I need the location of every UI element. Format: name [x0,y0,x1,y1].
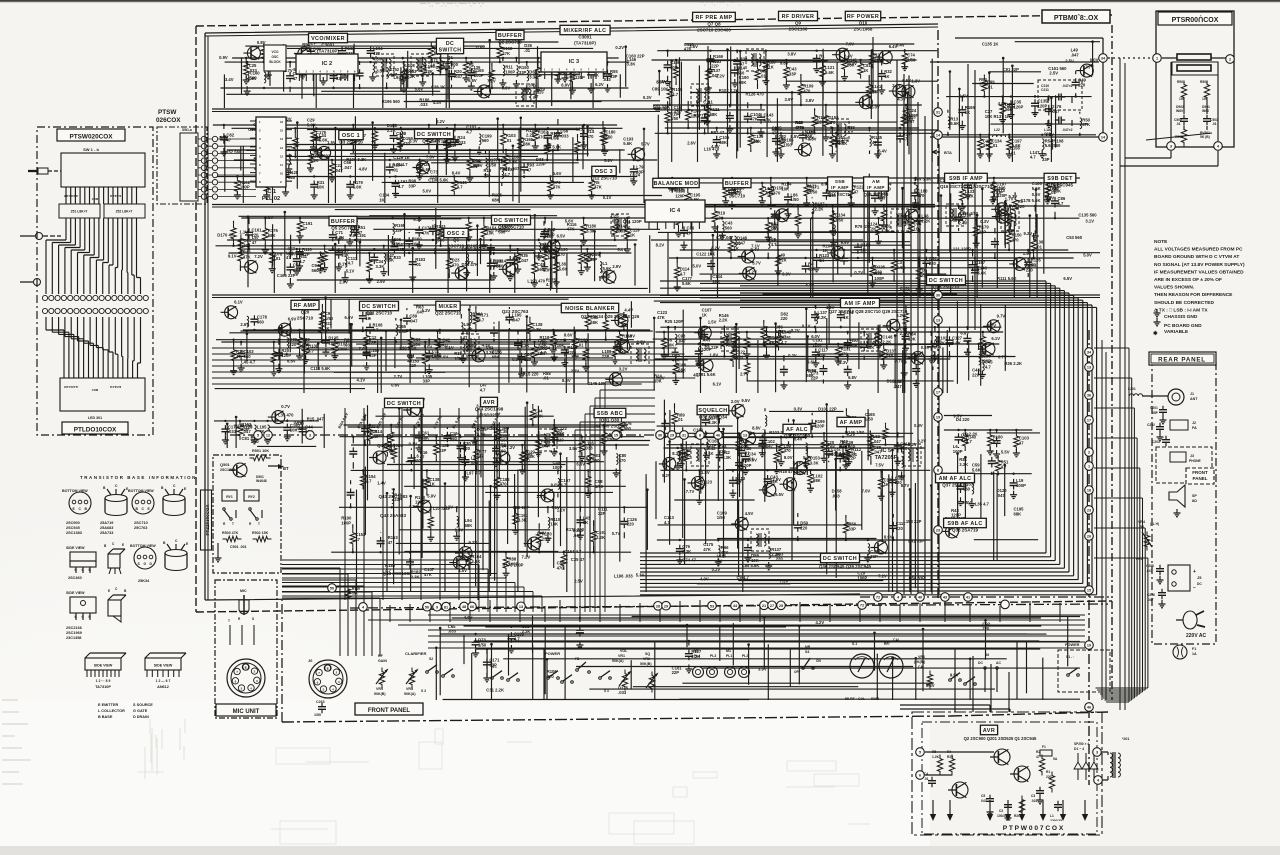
svg-text:12: 12 [266,434,270,438]
svg-text:R196 560: R196 560 [382,99,401,104]
svg-text:OSC: OSC [272,55,280,59]
svg-text:46: 46 [716,434,720,438]
svg-text:560: 560 [771,227,779,232]
svg-text:220: 220 [547,674,555,679]
svg-text:1/50: 1/50 [784,142,793,147]
svg-text:33P: 33P [789,71,797,76]
svg-text:R87 47: R87 47 [711,130,725,135]
svg-text:46: 46 [1087,706,1091,710]
svg-text:220: 220 [289,342,297,347]
svg-text:560: 560 [288,175,296,180]
svg-text:5.0V: 5.0V [693,263,702,268]
svg-text:22P: 22P [397,247,405,252]
svg-text:5.0V: 5.0V [423,189,432,194]
svg-text:560: 560 [257,319,265,324]
svg-text:0.9V: 0.9V [219,55,228,60]
svg-text:.033: .033 [560,133,569,138]
svg-text:L41 33P: L41 33P [908,539,924,544]
svg-text:47K: 47K [657,315,665,320]
svg-text:22P: 22P [372,434,380,439]
svg-text:100P: 100P [953,449,963,454]
svg-text:47K: 47K [674,110,682,115]
svg-text:F1: F1 [1042,745,1046,749]
svg-text:1K: 1K [860,247,865,252]
svg-text:DC SWITCH: DC SWITCH [362,304,396,310]
svg-text:047: 047 [981,799,987,803]
svg-text:E EMITTER: E EMITTER [98,703,119,707]
svg-text:REAR PANEL: REAR PANEL [1158,357,1206,364]
svg-text:50: 50 [1140,525,1144,529]
svg-text:.01: .01 [543,376,549,381]
svg-text:C89 10K: C89 10K [652,87,669,92]
svg-text:3.3K: 3.3K [518,518,527,523]
svg-text:68K: 68K [492,355,500,360]
svg-text:.01: .01 [1010,151,1016,156]
svg-text:33P: 33P [395,228,403,233]
svg-text:9.5V: 9.5V [741,398,750,403]
svg-text:28: 28 [656,605,660,609]
svg-text:5.6K: 5.6K [353,185,362,190]
svg-text:Q19 2SC945: Q19 2SC945 [1047,183,1074,188]
svg-text:E: E [89,615,91,619]
svg-text:1.8V: 1.8V [701,470,710,475]
svg-text:470: 470 [784,448,792,453]
svg-text:C178 5.6K: C178 5.6K [1021,198,1041,203]
svg-text:2.5V: 2.5V [1065,59,1074,64]
svg-text:0.7V: 0.7V [281,404,290,409]
svg-text:8.0V: 8.0V [784,455,793,460]
svg-text:6.5V: 6.5V [265,215,274,220]
svg-text:5.6K: 5.6K [952,340,961,345]
svg-text:D24 47K: D24 47K [462,262,479,267]
svg-text:POWER: POWER [1065,643,1080,647]
svg-text:1K: 1K [863,68,868,73]
svg-text:Q4 2SC710: Q4 2SC710 [422,139,446,144]
svg-text:7.0V: 7.0V [440,354,449,359]
svg-text:2.2V: 2.2V [506,445,515,450]
svg-text:7.2V: 7.2V [522,555,531,560]
svg-text:.047×2: .047×2 [1062,84,1073,88]
svg-text:L COLLECTOR: L COLLECTOR [98,709,125,713]
svg-text:8: 8 [699,434,701,438]
svg-text:SW 1 - b: SW 1 - b [83,147,99,152]
svg-text:0.0V: 0.0V [512,357,521,362]
svg-text:25A733: 25A733 [100,531,113,535]
svg-text:PTBM0ˆ8:.OX: PTBM0ˆ8:.OX [1054,14,1099,22]
svg-text:6.6V: 6.6V [345,315,354,320]
svg-text:5.7V: 5.7V [987,323,996,328]
svg-text:5: 5 [919,751,921,755]
svg-text:SWITCH: SWITCH [439,48,462,54]
svg-text:.047: .047 [1146,569,1153,573]
svg-text:R25 120P: R25 120P [665,319,684,324]
svg-text:10K: 10K [550,522,558,527]
svg-text:33P: 33P [590,257,598,262]
svg-text:10K: 10K [985,114,993,119]
svg-text:3.1V: 3.1V [793,460,802,465]
svg-text:AM AF ALC: AM AF ALC [939,476,972,482]
svg-text:470: 470 [373,51,381,56]
svg-text:3.3K: 3.3K [471,559,480,564]
svg-text:10K: 10K [781,186,789,191]
svg-text:Q20: Q20 [301,310,310,315]
svg-text:4.8V: 4.8V [373,57,382,62]
svg-text:1A: 1A [1192,652,1197,656]
svg-text:VR1: VR1 [618,654,625,658]
svg-text:.047: .047 [344,165,353,170]
svg-text:7.0V: 7.0V [846,42,855,47]
svg-text:NO SIGNAL (AT 13.8V POWER SUPP: NO SIGNAL (AT 13.8V POWER SUPPLY) [1154,262,1245,268]
svg-text:.047: .047 [796,125,805,130]
svg-text:33P: 33P [768,341,776,346]
svg-text:2SC945 2SD325: 2SC945 2SD325 [593,424,627,429]
svg-text:22P: 22P [672,670,680,675]
svg-text:C160 22P: C160 22P [626,54,645,59]
svg-text:Δ TX : □ LSB : I-I AM TX: Δ TX : □ LSB : I-I AM TX [1154,307,1208,313]
svg-text:120P: 120P [1014,104,1024,109]
svg-text:47: 47 [1036,755,1040,759]
svg-text:6.6V: 6.6V [468,78,477,83]
svg-text:4.7: 4.7 [546,282,552,287]
svg-text:.033: .033 [603,77,612,82]
svg-text:72: 72 [860,604,864,608]
svg-text:AF ALC: AF ALC [786,427,808,433]
svg-text:33P: 33P [369,353,377,358]
svg-text:0.0V: 0.0V [502,85,511,90]
svg-text:C3001: C3001 [578,35,592,40]
svg-text:4.7: 4.7 [398,184,404,189]
svg-text:6.4V: 6.4V [796,468,805,473]
svg-text:120P: 120P [368,429,378,434]
svg-text:3.3K: 3.3K [627,62,636,67]
svg-text:RF: RF [378,654,384,658]
svg-text:C129 1K: C129 1K [393,155,410,160]
svg-text:D101 22P: D101 22P [818,406,837,411]
svg-text:220: 220 [817,120,825,125]
svg-text:7.2V: 7.2V [254,254,263,259]
svg-text:25A683: 25A683 [100,526,113,530]
svg-text:4.3V: 4.3V [869,89,878,94]
svg-text:220: 220 [982,626,990,631]
svg-text:560: 560 [1005,107,1013,112]
svg-text:C9 4.7: C9 4.7 [737,575,750,580]
svg-text:.01: .01 [506,138,512,143]
svg-text:R169: R169 [352,587,360,591]
svg-text:0.2V: 0.2V [917,439,926,444]
svg-text:0.0V: 0.0V [1090,58,1099,63]
svg-text:470: 470 [917,193,925,198]
svg-text:S1 - ·: S1 - · [1066,655,1074,659]
svg-text:5: 5 [257,434,259,438]
svg-text:3.5V: 3.5V [376,69,385,74]
svg-text:470: 470 [818,352,826,357]
svg-text:470: 470 [538,134,546,139]
svg-text:.033: .033 [228,429,237,434]
svg-text:1.2V: 1.2V [748,269,757,274]
svg-text:3.3K: 3.3K [722,455,731,460]
svg-text:33P: 33P [1042,157,1050,162]
svg-text:G: G [144,562,147,566]
svg-text:Q44 2SC1398: Q44 2SC1398 [475,407,504,412]
svg-text:10K: 10K [654,378,662,383]
svg-text:2SC710 2SC460: 2SC710 2SC460 [697,28,731,33]
svg-text:R20: R20 [947,755,953,759]
svg-text:50: 50 [330,587,334,591]
svg-text:R36 2.2K: R36 2.2K [1004,361,1022,366]
svg-text:4.2V: 4.2V [816,620,825,625]
svg-text:R35 560: R35 560 [654,106,671,111]
svg-text:IN4648: IN4648 [256,479,267,483]
svg-text:68K: 68K [1014,512,1022,517]
svg-text:120P: 120P [813,342,823,347]
svg-text:3.9V: 3.9V [785,97,794,102]
svg-text:47: 47 [420,455,425,460]
svg-text:22P: 22P [979,230,987,235]
svg-text:7.3V: 7.3V [780,579,789,584]
svg-text:470: 470 [1012,237,1020,242]
svg-text:C145 10K: C145 10K [587,381,606,386]
svg-text:1K: 1K [702,312,707,317]
svg-text:R111 5.6K: R111 5.6K [997,276,1017,281]
svg-text:ON: ON [816,659,821,663]
svg-text:5.6K: 5.6K [977,270,986,275]
svg-text:220: 220 [463,446,471,451]
svg-text:R15 .047: R15 .047 [307,417,325,422]
svg-text:33P: 33P [336,76,344,81]
svg-text:4.5V: 4.5V [458,568,467,573]
svg-text:2.2K: 2.2K [815,207,824,212]
svg-text:47K: 47K [424,572,432,577]
svg-text:47K: 47K [553,185,561,190]
svg-text:✱: ✱ [1153,330,1158,337]
svg-text:IF AMP: IF AMP [867,185,885,190]
svg-text:47: 47 [355,537,360,542]
svg-text:47: 47 [903,136,908,141]
svg-text:Q42 25A683: Q42 25A683 [380,513,406,518]
svg-text:.01: .01 [578,342,584,347]
svg-text:8.3V: 8.3V [914,353,923,358]
svg-text:COM: COM [92,388,99,392]
svg-text:(2K(B)): (2K(B)) [914,660,925,664]
svg-text:6.0V: 6.0V [626,334,635,339]
svg-text:2.2V: 2.2V [571,369,580,374]
svg-text:1.1V: 1.1V [239,230,248,235]
svg-text:LED 301: LED 301 [88,416,102,420]
svg-text:S9B IF AMP: S9B IF AMP [949,176,983,182]
svg-text:5.6K: 5.6K [838,141,847,146]
svg-text:IC 4: IC 4 [670,208,681,214]
svg-text:TA7310P: TA7310P [95,685,111,689]
svg-text:9.6V: 9.6V [807,360,816,365]
svg-text:220: 220 [972,372,980,377]
svg-text:C3001: C3001 [321,43,335,48]
svg-text:81: 81 [444,605,448,609]
svg-text:1K: 1K [356,238,361,243]
svg-text:S: S [252,617,254,621]
svg-text:3.3V: 3.3V [839,360,848,365]
svg-text:4.7: 4.7 [540,350,546,355]
svg-text:470: 470 [558,252,566,257]
svg-text:220: 220 [929,261,937,266]
svg-text:ARE IN EXCESS OF ± 20% OF: ARE IN EXCESS OF ± 20% OF [1154,277,1222,283]
svg-text:68K: 68K [288,252,296,257]
svg-text:68K: 68K [523,142,531,147]
svg-text:L94 68K: L94 68K [394,75,410,80]
svg-text:0.9V: 0.9V [618,247,627,252]
svg-text:7.7V: 7.7V [895,359,904,364]
svg-text:220: 220 [627,522,635,527]
svg-text:0.6V: 0.6V [383,445,392,450]
svg-text:13: 13 [1087,366,1091,370]
svg-text:RF/: RF/ [884,642,890,646]
svg-text:470: 470 [557,565,565,570]
svg-text:50K(B): 50K(B) [640,662,652,666]
svg-text:ˇ˘˝ ˆ·· ˇˆ ·˘·˝ˆˇ ˘·ˆˇ˘ˇ ˆ·ˇ˘: ˇ˘˝ ˆ·· ˇˆ ·˘·˝ˆˇ ˘·ˆˇ˘ˇ ˆ·ˇ˘ ˇ·ˆ [420,3,485,10]
svg-text:2.2K: 2.2K [387,128,396,133]
svg-text:13: 13 [280,146,284,150]
svg-text:1K: 1K [583,520,588,525]
svg-text:R16 470: R16 470 [779,469,796,474]
svg-text:L193 470: L193 470 [527,279,545,284]
svg-text:10K: 10K [412,241,420,246]
svg-text:2.2K: 2.2K [691,654,700,659]
svg-text:8.5V: 8.5V [790,134,799,139]
svg-text:2SC2166: 2SC2166 [66,626,82,630]
svg-text:100P: 100P [601,274,611,279]
svg-text:CAL: CAL [918,665,925,669]
svg-text:4.7: 4.7 [308,349,314,354]
svg-text:2SC710: 2SC710 [448,244,465,249]
svg-text:47K: 47K [736,354,744,359]
svg-text:R172 220: R172 220 [566,527,585,532]
svg-text:3.9V: 3.9V [758,666,767,671]
svg-text:1.4V: 1.4V [1023,251,1032,256]
svg-text:OSC 1: OSC 1 [342,133,360,139]
svg-text:2.7V: 2.7V [740,372,749,377]
svg-text:3: 3 [1096,751,1098,755]
svg-text:2.9V: 2.9V [612,264,621,269]
svg-text:S.1: S.1 [852,642,857,646]
svg-text:100P: 100P [1016,483,1026,488]
svg-text:PLL 02: PLL 02 [262,196,280,202]
svg-text:220: 220 [450,143,458,148]
svg-text:C91 22P: C91 22P [1003,67,1020,72]
svg-text:2SC900: 2SC900 [442,62,459,67]
svg-text:SQUELCH: SQUELCH [698,408,727,414]
svg-text:S 2: S 2 [421,689,426,693]
svg-text:9.7V: 9.7V [997,313,1006,318]
svg-text:L45 4.7: L45 4.7 [241,359,256,364]
svg-text:19: 19 [936,416,940,420]
svg-text:560: 560 [470,70,478,75]
svg-text:47: 47 [534,94,539,99]
svg-text:7.1V: 7.1V [551,505,560,510]
svg-text:14: 14 [280,137,284,141]
svg-text:8.8V: 8.8V [752,425,761,430]
svg-text:6.5V: 6.5V [557,233,566,238]
svg-text:S9B AF ALC: S9B AF ALC [947,521,982,527]
svg-text:5A: 5A [1053,757,1058,761]
svg-text:47: 47 [293,76,298,81]
svg-text:1.5V: 1.5V [327,140,336,145]
svg-text:4.3V: 4.3V [848,61,857,66]
svg-text:68K: 68K [535,413,543,418]
svg-text:Q37 25A719: Q37 25A719 [942,483,968,488]
svg-text:PC BOARD GND: PC BOARD GND [1164,323,1202,329]
svg-text:5.6K: 5.6K [950,121,959,126]
svg-text:25C763: 25C763 [134,526,147,530]
svg-text:8.0V: 8.0V [871,105,880,110]
svg-text:4.7: 4.7 [348,261,354,266]
svg-text:68K: 68K [492,197,500,202]
svg-text:IC 1: IC 1 [266,189,276,195]
svg-text:PL3: PL3 [710,654,716,658]
svg-text:.033: .033 [344,342,353,347]
svg-text:1K: 1K [687,231,692,236]
svg-text:6.6V: 6.6V [576,462,585,467]
svg-text:PTSW020COX: PTSW020COX [70,134,114,141]
svg-text:4.4V: 4.4V [624,307,633,312]
svg-text:M1: M1 [726,649,731,653]
svg-text:16: 16 [280,120,284,124]
svg-text:5.6V: 5.6V [565,219,574,224]
svg-text:R144 3.3K: R144 3.3K [487,426,507,431]
svg-text:C53 560: C53 560 [1066,235,1083,240]
svg-text:L22: L22 [994,128,1000,132]
svg-text:8.3V: 8.3V [562,378,571,383]
svg-text:10K: 10K [908,337,916,342]
svg-text:5.6K: 5.6K [623,141,632,146]
svg-text:47: 47 [735,481,740,486]
svg-text:47: 47 [303,226,308,231]
svg-text:Q13: Q13 [733,188,742,193]
svg-text:9.9V: 9.9V [841,240,850,245]
svg-text:R4: R4 [947,750,951,754]
svg-text:PTLDO10COX: PTLDO10COX [74,427,117,434]
svg-text:3.4V: 3.4V [844,54,853,59]
svg-text:.01: .01 [275,256,281,261]
svg-text:5.6K: 5.6K [897,265,906,270]
svg-text:R503 47K: R503 47K [222,531,239,535]
svg-text:D89 3.3K: D89 3.3K [914,176,932,181]
svg-text:8.3V: 8.3V [672,451,681,456]
svg-text:L153 22P: L153 22P [903,519,921,524]
svg-text:470: 470 [493,263,501,268]
svg-text:8.4V: 8.4V [452,170,461,175]
svg-text:C118 5.6K: C118 5.6K [310,366,330,371]
svg-text:BUFFER: BUFFER [498,33,522,39]
svg-text:PL2: PL2 [742,654,748,658]
svg-text:100P: 100P [505,69,515,74]
svg-text:L121 120P: L121 120P [950,247,971,252]
svg-text:5.0V: 5.0V [1083,253,1092,258]
svg-text:OSC 2: OSC 2 [447,231,465,237]
svg-text:2.5V: 2.5V [574,578,583,583]
svg-text:RY1: RY1 [226,495,233,499]
svg-text:R123 .047: R123 .047 [500,166,520,171]
svg-text:6.2V: 6.2V [896,313,905,318]
svg-text:560: 560 [482,138,490,143]
svg-text:TA7205P: TA7205P [875,455,898,461]
svg-text:.01: .01 [524,48,530,53]
svg-text:560: 560 [244,354,252,359]
svg-text:Q18 2SC710: Q18 2SC710 [933,285,960,290]
svg-text:30: 30 [936,294,940,298]
svg-text:4.7: 4.7 [299,259,305,264]
svg-text:47K: 47K [750,117,758,122]
svg-text:220V AC: 220V AC [1186,633,1206,639]
svg-text:9: 9 [436,605,438,609]
